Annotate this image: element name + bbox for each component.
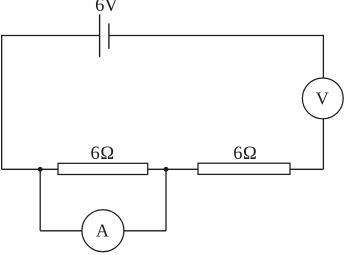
wire right side upper (top-right corner down to voltmeter) xyxy=(322,35,324,78)
voltmeter U1 circle xyxy=(302,78,343,119)
resistor R2 box xyxy=(198,163,290,174)
wire ammeter branch left vertical xyxy=(39,169,41,231)
wire ammeter branch right horizontal xyxy=(124,230,166,232)
wire ammeter branch right vertical xyxy=(165,169,167,231)
svg-text:V: V xyxy=(316,88,329,108)
svg-text:A: A xyxy=(96,221,109,241)
svg-text:6Ω: 6Ω xyxy=(90,144,114,164)
battery B1 short plate xyxy=(108,23,110,49)
wire left side (top-left corner down to bottom rail) xyxy=(1,35,3,169)
wire ammeter branch left horizontal xyxy=(40,230,82,232)
wire top-right segment (battery right plate to top-right corner) xyxy=(109,35,324,37)
node junction dot left (ammeter tap A1) xyxy=(38,167,43,172)
wire top-left segment (battery left plate to top-left corner) xyxy=(2,35,100,37)
ammeter U2 circle xyxy=(82,210,124,252)
node junction dot right (ammeter tap A2) xyxy=(164,167,169,172)
wire between resistor R1 and resistor R2 xyxy=(148,168,199,170)
wire right side lower (voltmeter down to bottom rail) xyxy=(322,119,324,170)
svg-text:6Ω: 6Ω xyxy=(233,144,257,164)
wire bottom rail right (resistor R2 to bottom-right corner) xyxy=(290,168,323,170)
svg-text:6V: 6V xyxy=(95,0,118,16)
wire bottom rail left (left corner to resistor R1) xyxy=(2,168,59,170)
resistor R1 box xyxy=(58,163,148,174)
battery B1 long plate xyxy=(99,14,101,57)
